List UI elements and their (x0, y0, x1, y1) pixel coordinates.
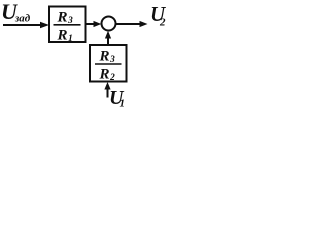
node U1 label (109, 87, 125, 110)
summing junction S1 (102, 17, 116, 31)
svg-text:2: 2 (159, 17, 166, 29)
svg-text:R: R (99, 67, 110, 83)
value label R3 (numerator of A1) (57, 10, 74, 27)
node U2 label (150, 2, 167, 29)
svg-text:R: R (99, 49, 110, 65)
svg-text:3: 3 (109, 55, 115, 65)
block A1 R3/R1 (49, 7, 86, 43)
arrowhead into block A1 (40, 22, 49, 28)
svg-text:1: 1 (120, 98, 126, 110)
arrowhead output U2 (140, 21, 148, 27)
svg-text:зад: зад (14, 13, 31, 25)
arrowhead into summing junction (94, 21, 102, 27)
svg-text:1: 1 (68, 34, 73, 44)
wire from block A2 up to summing junction (107, 36, 109, 45)
wire input from Uzad to block A1 (3, 24, 41, 26)
wire from block A1 to summing junction (86, 23, 95, 25)
value label R2 (denominator of A2) (99, 67, 116, 84)
fraction bar of A1 (54, 24, 81, 26)
value label R3 (numerator of A2) (99, 49, 116, 66)
svg-text:3: 3 (67, 16, 73, 26)
fraction bar of A2 (95, 63, 122, 65)
value label R1 (denominator of A1) (57, 28, 73, 45)
arrowhead into summing junction from below (105, 31, 111, 39)
wire output from summing junction (116, 23, 140, 25)
arrowhead into block A2 from below (104, 82, 110, 90)
block A2 R3/R2 (90, 45, 127, 82)
node Uzad label (1, 0, 31, 25)
svg-text:R: R (57, 28, 68, 44)
svg-text:R: R (57, 10, 68, 26)
wire from U1 up into block A2 (107, 88, 109, 98)
svg-text:2: 2 (109, 73, 115, 83)
